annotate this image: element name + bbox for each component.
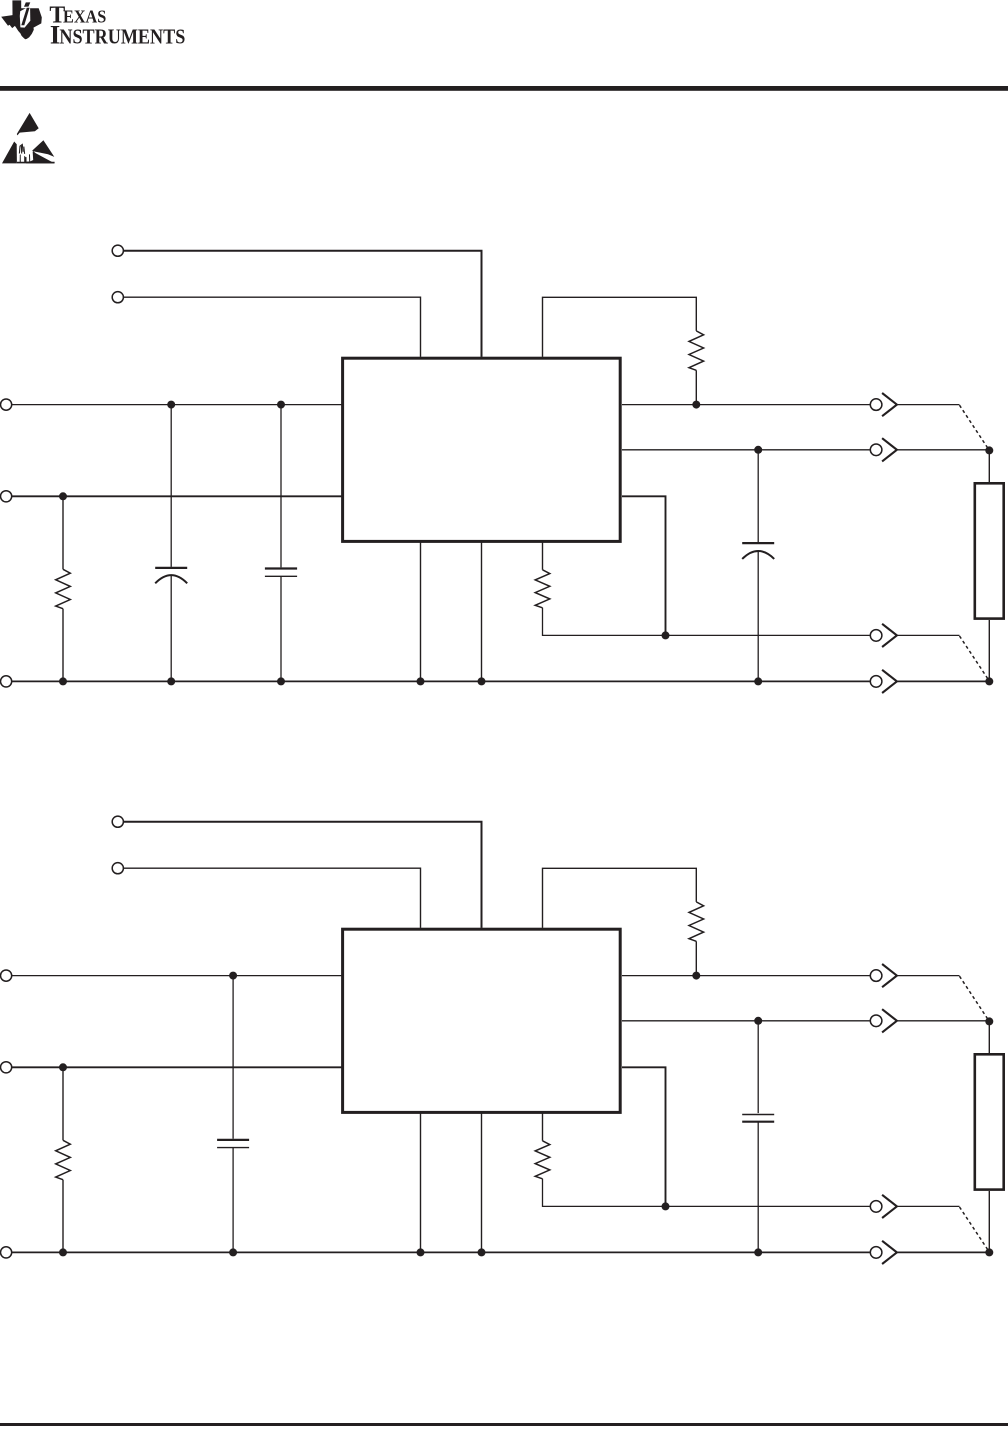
wire xyxy=(897,449,989,451)
node xyxy=(754,1017,762,1025)
wire xyxy=(695,941,697,975)
resistor feedback xyxy=(689,331,704,370)
node xyxy=(985,1017,993,1025)
terminal ground xyxy=(1,1247,12,1258)
node xyxy=(478,677,486,685)
resistor gain xyxy=(535,1141,550,1179)
wire xyxy=(897,1251,989,1253)
wire xyxy=(897,1205,960,1207)
node xyxy=(167,677,175,685)
wire xyxy=(543,608,870,636)
node xyxy=(478,1248,486,1256)
node xyxy=(229,1248,237,1256)
node xyxy=(754,1248,762,1256)
node xyxy=(229,972,237,980)
resistor bias xyxy=(56,1140,71,1179)
node xyxy=(277,401,285,409)
wire xyxy=(123,251,481,357)
schematic 1 xyxy=(1,245,1004,693)
wire xyxy=(622,975,870,977)
resistor load xyxy=(975,483,1004,618)
wire xyxy=(123,868,420,928)
wire xyxy=(757,551,759,681)
header rule xyxy=(0,86,1008,91)
terminal input 1 xyxy=(1,399,12,410)
wire xyxy=(420,542,422,682)
svg-text:NSTRUMENTS: NSTRUMENTS xyxy=(59,24,185,48)
wire xyxy=(988,1191,990,1252)
node xyxy=(754,677,762,685)
node xyxy=(985,446,993,454)
connector OUT3 xyxy=(870,1201,882,1213)
node xyxy=(277,677,285,685)
wire xyxy=(960,1207,990,1252)
wire xyxy=(12,495,342,497)
wire xyxy=(960,636,990,681)
node xyxy=(985,1248,993,1256)
wire xyxy=(695,370,697,404)
wire xyxy=(988,1021,990,1053)
terminal IN-A xyxy=(112,245,123,256)
terminal input 2 xyxy=(1,1062,12,1073)
capacitor C2 xyxy=(265,567,297,569)
footer rule xyxy=(0,1423,1008,1426)
wire xyxy=(62,1067,64,1140)
terminal ground xyxy=(1,676,12,687)
node xyxy=(754,446,762,454)
wire xyxy=(62,609,64,682)
terminal IN-B xyxy=(112,863,123,874)
wire xyxy=(988,620,990,681)
op-amp U1 xyxy=(343,358,621,541)
capacitor C1 xyxy=(217,1139,249,1141)
wire xyxy=(170,405,172,567)
connector OUT1 xyxy=(870,970,882,982)
wire xyxy=(123,297,420,357)
wire xyxy=(988,450,990,482)
wire xyxy=(897,1020,989,1022)
wire xyxy=(622,1067,666,1206)
resistor gain xyxy=(535,570,550,608)
node xyxy=(59,1063,67,1071)
schematic 2 xyxy=(1,816,1004,1264)
capacitor C3 xyxy=(742,542,774,544)
connector OUT4 xyxy=(870,1247,882,1259)
svg-text:EXAS: EXAS xyxy=(63,6,106,26)
wire xyxy=(62,1180,64,1253)
connector OUT2 xyxy=(870,444,882,456)
wire xyxy=(12,680,870,682)
wire xyxy=(622,496,666,635)
node xyxy=(417,677,425,685)
terminal input 1 xyxy=(1,970,12,981)
node xyxy=(59,492,67,500)
wire xyxy=(542,542,544,570)
connector OUT2 xyxy=(870,1015,882,1027)
wire xyxy=(543,868,697,928)
wire xyxy=(757,1122,759,1253)
wire xyxy=(622,449,870,451)
TI logo wordmark TEXAS INSTRUMENTS xyxy=(49,2,185,49)
node xyxy=(167,401,175,409)
connector OUT3 xyxy=(870,630,882,642)
wire xyxy=(420,1113,422,1253)
wire xyxy=(280,576,282,681)
capacitor C1 xyxy=(155,567,187,569)
wire xyxy=(543,297,697,357)
capacitor C3 xyxy=(742,1114,774,1116)
node xyxy=(985,677,993,685)
node xyxy=(59,1248,67,1256)
wire xyxy=(481,1113,483,1253)
wire xyxy=(542,1113,544,1141)
node xyxy=(692,972,700,980)
node xyxy=(662,631,670,639)
resistor load xyxy=(975,1054,1004,1189)
wire xyxy=(897,680,989,682)
terminal input 2 xyxy=(1,491,12,502)
node xyxy=(662,1202,670,1210)
node xyxy=(417,1248,425,1256)
wire xyxy=(12,1066,342,1068)
wire xyxy=(897,404,960,406)
connector OUT4 xyxy=(870,676,882,688)
wire xyxy=(897,634,960,636)
terminal IN-A xyxy=(112,816,123,827)
wire xyxy=(897,975,960,977)
wire xyxy=(280,405,282,568)
wire xyxy=(62,496,64,569)
wire xyxy=(960,976,990,1021)
op-amp U1 xyxy=(343,929,621,1112)
wire xyxy=(960,405,990,450)
wire xyxy=(622,1020,870,1022)
wire xyxy=(232,1148,234,1253)
resistor feedback xyxy=(689,902,704,941)
wire xyxy=(232,976,234,1139)
ESD sensitivity symbol xyxy=(2,113,55,163)
wire xyxy=(123,822,481,928)
wire xyxy=(12,975,342,977)
node xyxy=(59,677,67,685)
resistor bias xyxy=(56,569,71,608)
wire xyxy=(170,575,172,681)
wire xyxy=(12,404,342,406)
TI logo Texas-state bug xyxy=(1,0,42,39)
node xyxy=(692,401,700,409)
wire xyxy=(757,450,759,542)
wire xyxy=(757,1021,759,1113)
terminal IN-B xyxy=(112,292,123,303)
wire xyxy=(12,1251,870,1253)
wire xyxy=(543,1179,870,1207)
wire xyxy=(481,542,483,682)
connector OUT1 xyxy=(870,399,882,411)
wire xyxy=(622,404,870,406)
